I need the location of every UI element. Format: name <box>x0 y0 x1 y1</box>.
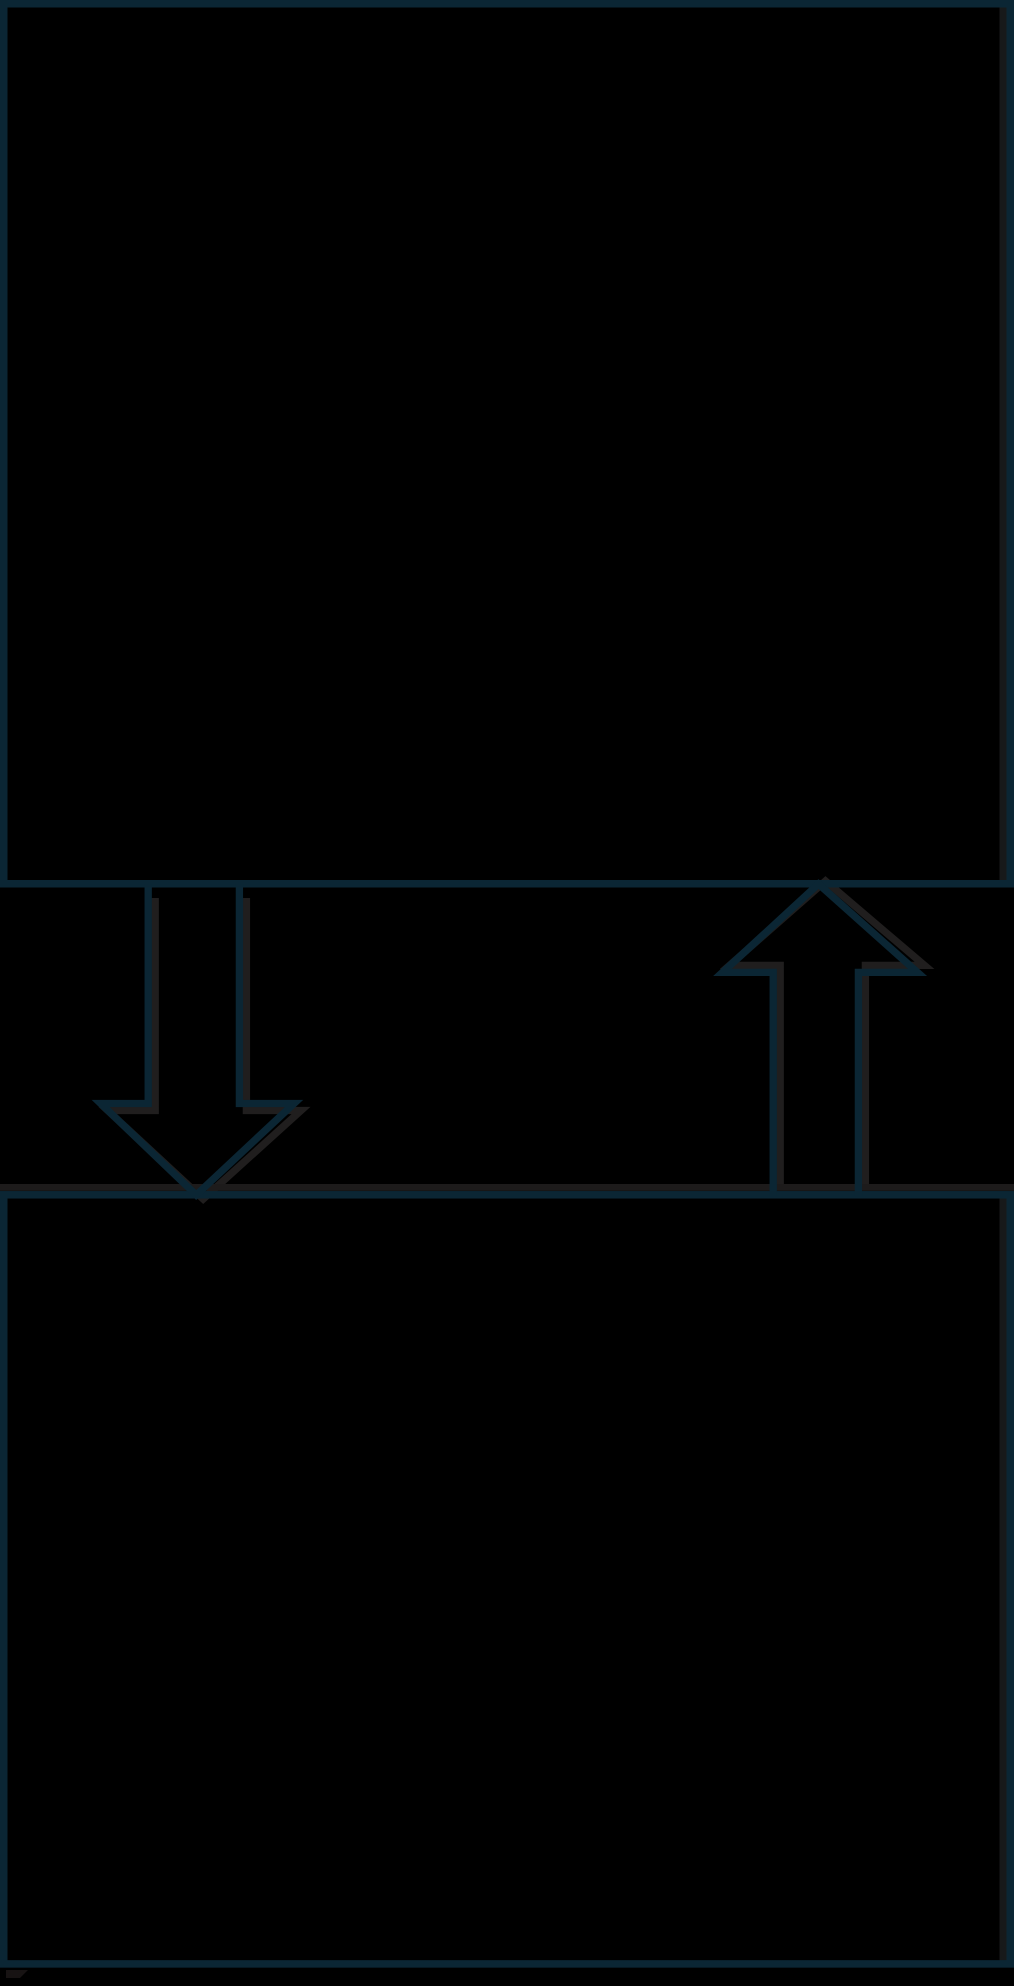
gray band above bottom panel top edge <box>0 1184 1014 1191</box>
faint mark below bottom-left corner <box>6 1970 28 1978</box>
bottom panel <box>4 1195 1011 1964</box>
top panel scrollbar column <box>1000 8 1007 881</box>
down arrow shadow <box>108 898 301 1199</box>
top panel <box>4 4 1011 884</box>
up arrow shadow <box>730 881 925 1186</box>
down arrow <box>101 884 294 1195</box>
bottom panel scrollbar column <box>1000 1199 1007 1961</box>
up arrow <box>723 884 918 1196</box>
